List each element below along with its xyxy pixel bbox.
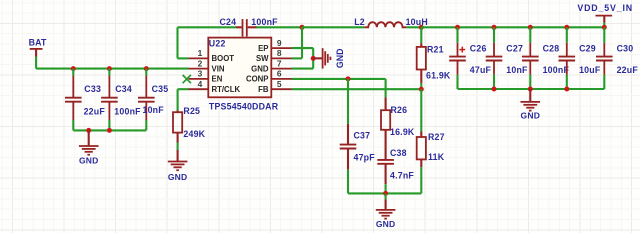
node C34 bottom junction: [107, 128, 112, 133]
svg-text:C35: C35: [152, 84, 169, 94]
svg-text:100nF: 100nF: [543, 65, 570, 75]
svg-text:EN: EN: [212, 75, 223, 84]
capacitor C34: [101, 69, 141, 131]
svg-text:VDD_5V_IN: VDD_5V_IN: [577, 3, 633, 13]
wire CONP net: [292, 79, 386, 98]
svg-text:FB: FB: [258, 85, 269, 94]
svg-text:47uF: 47uF: [470, 65, 492, 75]
svg-text:C30: C30: [617, 43, 634, 53]
svg-text:VIN: VIN: [212, 64, 225, 73]
node C35 junction: [144, 66, 149, 71]
op-amp U22 TPS54540DDAR body: [208, 38, 278, 112]
node feedback GND junction: [383, 191, 388, 196]
svg-text:100nF: 100nF: [251, 17, 278, 27]
svg-text:BOOT: BOOT: [212, 54, 235, 63]
svg-text:C26: C26: [470, 43, 487, 53]
pin 9 EP: [258, 38, 291, 53]
capacitor C30: [596, 27, 638, 89]
capacitor C28: [522, 27, 569, 89]
svg-text:R27: R27: [428, 132, 445, 142]
svg-text:TPS54540DDAR: TPS54540DDAR: [209, 101, 279, 111]
pin 5 FB: [258, 79, 291, 94]
pin 4 RT/CLK: [189, 79, 241, 94]
svg-text:GND: GND: [335, 49, 345, 69]
ground GND feedback: [376, 193, 396, 229]
inductor L2 10uH: [354, 17, 428, 28]
ground GND right of U22 (rotated): [313, 48, 345, 68]
node VDD_5V_IN junction: [602, 25, 607, 30]
svg-text:R25: R25: [183, 106, 200, 116]
node SW top junction: [300, 25, 305, 30]
wire FB net: [292, 88, 422, 90]
svg-text:GND: GND: [79, 156, 99, 166]
resistor R21: [417, 27, 451, 89]
svg-text:10nF: 10nF: [143, 105, 165, 115]
svg-text:R21: R21: [427, 44, 444, 54]
svg-text:BAT: BAT: [29, 38, 47, 48]
svg-text:GND: GND: [521, 110, 541, 120]
capacitor C27: [486, 27, 528, 89]
svg-text:8: 8: [277, 48, 282, 58]
node GND stem junction: [86, 128, 91, 133]
svg-text:10uF: 10uF: [579, 65, 601, 75]
ground GND below R25: [168, 150, 188, 182]
svg-text:RT/CLK: RT/CLK: [212, 85, 241, 94]
node C28 top junction: [528, 25, 533, 30]
node EP-GND junction: [311, 56, 316, 61]
wire SW riser: [292, 27, 303, 58]
svg-text:3: 3: [198, 69, 203, 79]
svg-text:C37: C37: [354, 131, 371, 141]
svg-text:6: 6: [277, 69, 282, 79]
node C26 top junction: [455, 25, 460, 30]
node C29 top junction: [564, 25, 569, 30]
wire output bottom bus: [458, 88, 605, 90]
svg-text:CONP: CONP: [246, 75, 269, 84]
node FB-R21 junction: [419, 87, 424, 92]
svg-text:61.9K: 61.9K: [426, 71, 451, 81]
pin 1 BOOT: [189, 48, 235, 63]
svg-text:16.9K: 16.9K: [390, 127, 415, 137]
svg-text:10nF: 10nF: [506, 65, 528, 75]
wire BAT bus to VIN: [36, 68, 188, 70]
svg-text:L2: L2: [354, 17, 365, 27]
node C29 bottom junction: [564, 87, 569, 92]
no-connect X on pin 3 EN: [183, 75, 191, 83]
wire EP to ground node: [292, 48, 314, 58]
net flag VDD_5V_IN: [577, 3, 633, 27]
svg-text:2: 2: [198, 58, 203, 68]
wire C24 to SW node: [257, 26, 303, 28]
capacitor C37: [340, 79, 376, 193]
capacitor C26: [449, 27, 491, 89]
wire input caps bottom bus: [73, 129, 146, 131]
wire BOOT to C24: [178, 27, 237, 58]
svg-text:C24: C24: [220, 17, 237, 27]
resistor R25: [173, 89, 206, 150]
svg-text:C38: C38: [390, 148, 407, 158]
wire BAT vertical: [35, 57, 37, 69]
capacitor C33: [65, 69, 105, 131]
node C34 junction: [107, 66, 112, 71]
svg-text:C34: C34: [115, 84, 132, 94]
ground GND input caps: [79, 130, 99, 165]
svg-text:GND: GND: [168, 172, 188, 182]
svg-text:4: 4: [198, 79, 203, 89]
svg-text:249K: 249K: [183, 129, 205, 139]
node R21 top junction: [419, 25, 424, 30]
svg-text:SW: SW: [256, 54, 269, 63]
svg-text:10uH: 10uH: [406, 17, 428, 27]
capacitor C35: [138, 69, 168, 131]
svg-text:1: 1: [198, 48, 203, 58]
svg-text:C27: C27: [506, 43, 523, 53]
svg-text:U22: U22: [209, 39, 226, 49]
svg-text:22uF: 22uF: [617, 65, 639, 75]
pin 6 CONP: [246, 69, 292, 84]
svg-text:11K: 11K: [428, 152, 445, 162]
svg-text:7: 7: [277, 58, 282, 68]
node C27 top junction: [492, 25, 497, 30]
svg-text:4.7nF: 4.7nF: [390, 171, 414, 181]
svg-text:C33: C33: [84, 84, 101, 94]
node C28-GND bottom junction: [528, 87, 533, 92]
pin 3 EN: [189, 69, 223, 84]
node C37 junction: [346, 76, 351, 81]
svg-text:C29: C29: [579, 43, 596, 53]
capacitor C24: [220, 17, 279, 37]
svg-text:100nF: 100nF: [114, 107, 141, 117]
wire GND pin to ground node: [292, 58, 314, 68]
capacitor C29: [559, 27, 601, 89]
resistor R26: [381, 97, 415, 137]
pin 7 GND: [251, 58, 291, 73]
pin 8 SW: [256, 48, 292, 63]
svg-text:9: 9: [277, 38, 282, 48]
wire feedback bottom bus: [348, 192, 421, 194]
node C33 junction: [71, 66, 76, 71]
svg-text:R26: R26: [391, 105, 408, 115]
svg-text:EP: EP: [258, 44, 268, 53]
resistor R27: [417, 89, 445, 193]
capacitor C38: [377, 130, 414, 194]
svg-text:5: 5: [277, 79, 282, 89]
wire L2 to output node: [406, 26, 421, 28]
net flag BAT: [29, 38, 47, 57]
wire SW node to L2: [302, 26, 364, 28]
svg-text:22uF: 22uF: [84, 107, 106, 117]
pin 2 VIN: [189, 58, 225, 73]
svg-text:GND: GND: [376, 219, 396, 229]
svg-text:GND: GND: [251, 64, 269, 73]
svg-text:47pF: 47pF: [354, 153, 376, 163]
svg-text:C28: C28: [543, 43, 560, 53]
wire output bus top: [421, 26, 604, 28]
node C27 bottom junction: [492, 87, 497, 92]
ground GND output: [521, 89, 541, 120]
